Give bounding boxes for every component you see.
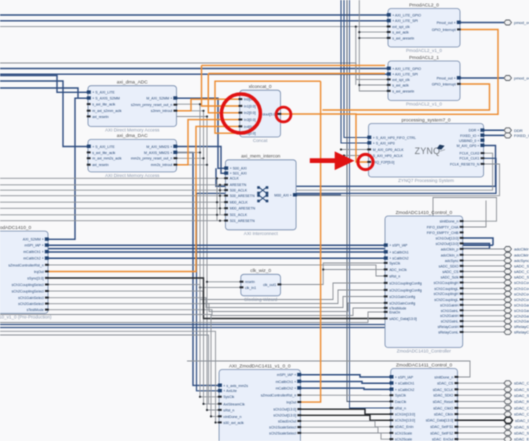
svg-text:sRst_n: sRst_n	[389, 274, 400, 278]
wire AXI_LITE_GPIO bus to PmodACL2_1	[0, 67, 388, 70]
wire sZmodControllerRst_n	[48, 265, 385, 276]
wire Pmod_out 1	[460, 77, 504, 80]
wire M_AXIS_MM2S to s_axis_mm2s	[177, 153, 220, 386]
svg-text:sCh2CouplingH: sCh2CouplingH	[514, 291, 529, 296]
svg-text:+ S_AXIS_S2MM: + S_AXIS_S2MM	[92, 97, 120, 101]
wire SysClk trunk to AXI_ZmodDAC	[200, 104, 219, 397]
port sDAC_SetFS2	[504, 431, 512, 436]
port adcSync	[504, 258, 512, 263]
svg-text:sADC_Sclk: sADC_Sclk	[441, 276, 459, 280]
svg-text:sDacEnOut: sDacEnOut	[278, 420, 296, 424]
svg-text:sDAC_SDIO: sDAC_SDIO	[433, 394, 453, 398]
block ZmodADC1410_0	[0, 225, 52, 320]
svg-text:M_AXI_GP0_ACLK: M_AXI_GP0_ACLK	[373, 148, 405, 152]
svg-text:DDR +: DDR +	[469, 129, 480, 133]
svg-text:sDAC_ClkIO: sDAC_ClkIO	[433, 406, 453, 410]
svg-text:sADC_CS: sADC_CS	[442, 270, 459, 274]
svg-text:m_axi_mm2s_aclk: m_axi_mm2s_aclk	[92, 157, 122, 161]
wire EnaOn feed	[0, 312, 385, 323]
svg-text:M00_ARESETN: M00_ARESETN	[230, 207, 256, 211]
wire AXI_S2MM from ZmodADC1410_0	[48, 98, 88, 239]
wire S_AXI_LITE to axi_dma_DAC	[0, 81, 88, 147]
wire sZmodControllerRst_n DAC	[300, 394, 390, 396]
svg-text:sADC_Sclk: sADC_Sclk	[514, 275, 529, 280]
svg-text:+ sCalibCh2: + sCalibCh2	[389, 257, 408, 261]
svg-text:s2mm_prmry_reset_out_n: s2mm_prmry_reset_out_n	[131, 103, 172, 107]
svg-text:mm2s_introut: mm2s_introut	[151, 163, 173, 167]
svg-text:In3[0:0]: In3[0:0]	[244, 118, 256, 122]
svg-text:+ s_axis_mm2s: + s_axis_mm2s	[223, 384, 248, 388]
block ZmodADC1410_Control_0	[384, 210, 464, 354]
svg-text:FIFO_EMPTY_CHB: FIFO_EMPTY_CHB	[427, 231, 459, 235]
wire mSPI_IAP to DAC ctl	[300, 375, 390, 377]
svg-text:sCh1GainConfig: sCh1GainConfig	[389, 295, 415, 299]
svg-text:adcSync: adcSync	[514, 258, 529, 263]
wire interconnect clk/reset feeder	[0, 201, 225, 203]
svg-text:ACLK: ACLK	[230, 177, 240, 181]
svg-text:ARESETN: ARESETN	[230, 183, 247, 187]
svg-text:ZYNQ7 Processing System: ZYNQ7 Processing System	[398, 178, 454, 183]
svg-text:sDAC_Reset: sDAC_Reset	[514, 399, 529, 404]
wire to sDAC external port	[458, 413, 505, 415]
svg-text:S00_ARESETN: S00_ARESETN	[230, 194, 255, 198]
port FIXED_IO	[504, 133, 512, 138]
svg-text:sSync[3:0]: sSync[3:0]	[27, 276, 44, 280]
svg-text:S01_ACLK: S01_ACLK	[230, 213, 248, 217]
svg-text:sCh2CouplingSelect: sCh2CouplingSelect	[12, 290, 44, 294]
svg-text:IrqOut: IrqOut	[34, 270, 44, 274]
svg-text:S01_ARESETN: S01_ARESETN	[230, 219, 255, 223]
wire S_AXI_HP0_ACLK	[344, 155, 369, 157]
svg-text:sDAC_SetFS2: sDAC_SetFS2	[514, 431, 529, 436]
svg-text:sDAC_SDIO: sDAC_SDIO	[514, 393, 529, 398]
block PmodACL2_0	[387, 2, 461, 53]
svg-text:sCh1CouplingH: sCh1CouplingH	[434, 281, 459, 285]
svg-text:DDR: DDR	[514, 128, 523, 133]
wire axi_resetn dma_DAC	[88, 164, 207, 166]
svg-text:sCh2Scale: sCh2Scale	[395, 438, 412, 441]
wire s_axi clock/reset trunk	[359, 0, 388, 91]
svg-text:sDAC_SetFS1: sDAC_SetFS1	[430, 425, 453, 429]
svg-text:sCh2CouplingL: sCh2CouplingL	[434, 298, 458, 302]
wire to external port	[463, 271, 504, 273]
annotation red circle around concat dout	[276, 107, 291, 122]
svg-text:IrqOut: IrqOut	[286, 401, 296, 405]
svg-text:m_axi_s2mm_aclk: m_axi_s2mm_aclk	[92, 109, 122, 113]
svg-text:sADC_CS: sADC_CS	[514, 269, 529, 274]
svg-text:ext_spi_clk: ext_spi_clk	[392, 25, 410, 29]
wire sCh1Out bus DAC	[300, 409, 390, 414]
port sCh2GainH	[504, 313, 512, 318]
svg-text:sRelayComH: sRelayComH	[514, 324, 529, 329]
port sDAC_SetFS1	[504, 424, 512, 429]
svg-text:sRelayComH: sRelayComH	[438, 325, 459, 329]
svg-text:sCh1CouplingL: sCh1CouplingL	[434, 287, 458, 291]
svg-text:M_AXI_MM2S +: M_AXI_MM2S +	[146, 145, 172, 149]
svg-text:SysClk: SysClk	[395, 394, 406, 398]
svg-text:pmod_out_1: pmod_out_1	[514, 76, 529, 81]
svg-text:sDAC_ClkIn: sDAC_ClkIn	[514, 412, 529, 417]
wire AXI_LITE_GPIO bus to PmodACL2_0	[0, 14, 388, 17]
svg-text:s_axi_lite_aclk: s_axi_lite_aclk	[92, 151, 115, 155]
svg-text:s_axi_aresetn: s_axi_aresetn	[392, 36, 414, 40]
svg-text:sCh1GainL: sCh1GainL	[514, 308, 529, 313]
wire to In1	[202, 65, 240, 106]
wire tap trunk a	[216, 178, 218, 220]
wire axi_resetn dma_ADC	[88, 116, 207, 118]
svg-text:sCh1GainH: sCh1GainH	[514, 303, 529, 308]
svg-text:AXI_ZmodDAC1411_v1_0_0: AXI_ZmodDAC1411_v1_0_0	[229, 363, 291, 369]
svg-text:sCh2Out[13:0]: sCh2Out[13:0]	[436, 242, 459, 246]
wire to sDAC external port	[458, 432, 505, 434]
svg-text:ZmodADC1410_Controller: ZmodADC1410_Controller	[397, 349, 452, 354]
svg-text:clk_in1: clk_in1	[245, 286, 256, 290]
wire interconnect clk/reset feeder	[0, 214, 225, 216]
svg-text:s_axi_aclk: s_axi_aclk	[392, 83, 409, 87]
svg-text:+ AXI_LITE_GPIO: + AXI_LITE_GPIO	[392, 13, 421, 17]
svg-text:FCLK_CLK1: FCLK_CLK1	[459, 157, 479, 161]
svg-text:AXI Direct Memory Access: AXI Direct Memory Access	[105, 173, 160, 178]
svg-text:GPIO_Interrupt: GPIO_Interrupt	[432, 28, 456, 32]
wire to external port	[463, 276, 504, 278]
wire to external port	[463, 320, 504, 322]
svg-text:sCh2CouplingConfig: sCh2CouplingConfig	[389, 288, 422, 292]
port sDAC_CS	[504, 381, 512, 386]
svg-text:sCh1CouplingSelect: sCh1CouplingSelect	[12, 283, 44, 287]
svg-text:mm2s_prmry_reset_out_n: mm2s_prmry_reset_out_n	[131, 157, 172, 161]
svg-text:EnaOn: EnaOn	[389, 310, 400, 314]
wire vertical trunk 2 to ZmodDAC ctl	[350, 0, 391, 408]
svg-text:sTestMode: sTestMode	[27, 308, 44, 312]
svg-text:sCh2GainSelect: sCh2GainSelect	[18, 302, 44, 306]
svg-text:sCh2ScaleSelect: sCh2ScaleSelect	[269, 431, 296, 435]
svg-text:Pmod_out +: Pmod_out +	[437, 21, 456, 25]
port sCh2CouplingL	[504, 297, 512, 302]
wire AxiStreamClk trunk	[204, 111, 220, 404]
wire interconnect clk/reset feeder	[0, 177, 225, 179]
wire interrupt net top 1	[202, 64, 386, 67]
svg-text:sCh1CouplingConfig: sCh1CouplingConfig	[389, 281, 422, 285]
svg-text:sDAC_EnOut: sDAC_EnOut	[514, 437, 529, 441]
wire FCLK_CLK1 loop / AxiLite trunk	[197, 158, 497, 390]
svg-text:SysClk: SysClk	[389, 261, 400, 265]
wire FCLK_CLK0 to S00_ACLK	[225, 153, 492, 190]
wire to external port	[463, 331, 504, 333]
wire to external port	[463, 282, 504, 284]
wire long net above bottom blocks	[187, 361, 470, 377]
port sCh1CouplingL	[504, 286, 512, 291]
svg-text:sDAC_CS: sDAC_CS	[437, 382, 454, 386]
wire long bus pair b	[0, 326, 385, 329]
svg-text:dout[5:0]: dout[5:0]	[262, 112, 276, 116]
svg-text:processing_system7_0: processing_system7_0	[402, 117, 451, 123]
svg-text:s_axi_aresetn: s_axi_aresetn	[392, 89, 414, 93]
wire mCalibCh2 to DAC ctl	[300, 388, 390, 389]
svg-text:sDAC_ClkIO: sDAC_ClkIO	[514, 406, 529, 411]
wire ext_spi_clk PmodACL2_0	[0, 26, 388, 28]
port sCh1GainL	[504, 308, 512, 313]
svg-text:sRst_n: sRst_n	[223, 408, 234, 412]
wire to external port	[463, 260, 504, 262]
wire clk_in1 to clk_wiz	[200, 286, 241, 288]
svg-text:AXI_S2MM +: AXI_S2MM +	[23, 238, 44, 242]
wire bottom feeder 2	[0, 335, 209, 404]
svg-text:DacClk: DacClk	[395, 400, 407, 404]
svg-text:Concat: Concat	[253, 138, 268, 143]
wire to external port	[463, 287, 504, 289]
svg-text:sRelayComL: sRelayComL	[514, 330, 529, 335]
svg-text:sDAC_CS: sDAC_CS	[514, 381, 529, 386]
svg-text:axi_dma_ADC: axi_dma_ADC	[117, 80, 148, 86]
svg-text:PmodACL2_v1_0: PmodACL2_v1_0	[406, 48, 442, 53]
svg-text:sDAC_SetFS2: sDAC_SetFS2	[430, 431, 453, 435]
svg-text:sCh2GainH: sCh2GainH	[514, 313, 529, 318]
wire mCalibCh1 to DAC ctl	[300, 382, 390, 384]
wire FIXED_IO	[484, 134, 504, 137]
svg-text:M_AXIS_MM2S +: M_AXIS_MM2S +	[144, 151, 172, 155]
wire M00_AXI	[296, 194, 341, 197]
svg-text:sRelayComL: sRelayComL	[438, 331, 458, 335]
wire resetn to clk_wiz	[207, 281, 241, 283]
wire interconnect clk/reset feeder	[0, 220, 225, 222]
svg-text:mCalibCh1 +: mCalibCh1 +	[23, 250, 44, 254]
wire to external port	[463, 293, 504, 295]
wire s_axi_aclk PmodACL2_0	[359, 31, 388, 33]
wire to sDAC external port	[458, 426, 505, 428]
wire aclk trunk 2	[355, 27, 357, 85]
svg-text:mSPI_IAP +: mSPI_IAP +	[24, 244, 43, 248]
wire to external port	[463, 304, 504, 306]
svg-text:+ sSPI_IAP: + sSPI_IAP	[395, 375, 414, 379]
wire sCh2Out loop	[463, 244, 490, 249]
svg-text:sCh2GainL: sCh2GainL	[441, 320, 459, 324]
block xlconcat_0	[239, 84, 282, 143]
wire to In5	[215, 81, 321, 133]
svg-text:+ AXI_LITE_GPIO: + AXI_LITE_GPIO	[392, 67, 421, 71]
port sADC_Sclk	[504, 275, 512, 280]
wire interconnect clk/reset feeder	[0, 184, 225, 186]
wire m_axi_s2mm_aclk	[88, 110, 204, 112]
port adcClkIn_p	[504, 247, 512, 252]
svg-text:S_AXI_HP0_ACLK: S_AXI_HP0_ACLK	[373, 154, 404, 158]
svg-text:sDAC_ClkIn: sDAC_ClkIn	[434, 413, 453, 417]
svg-text:xlconcat_0: xlconcat_0	[249, 84, 272, 90]
wire reset trunk	[207, 117, 219, 411]
svg-text:sCh1In[13:0]: sCh1In[13:0]	[395, 413, 415, 417]
svg-text:+ S_AXI_LITE: + S_AXI_LITE	[92, 91, 115, 95]
svg-text:AxiStreamClk: AxiStreamClk	[223, 402, 245, 406]
wire interconnect clk/reset feeder	[0, 189, 225, 191]
svg-text:In1[0:0]: In1[0:0]	[244, 104, 256, 108]
svg-text:sZmodControllerRst_n: sZmodControllerRst_n	[261, 394, 297, 398]
wire sDacEnOut	[300, 421, 390, 427]
svg-text:adcClkIn_p: adcClkIn_p	[441, 247, 459, 251]
svg-text:ext_spi_clk: ext_spi_clk	[392, 78, 410, 82]
wire ADC_InClk feed	[323, 269, 385, 271]
wire interconnect clk/reset feeder	[0, 207, 225, 209]
svg-text:resetn: resetn	[245, 280, 255, 284]
svg-text:clk_wiz_0: clk_wiz_0	[250, 268, 271, 274]
svg-text:AXI Interconnect: AXI Interconnect	[244, 231, 279, 236]
svg-text:s00_axi_aclk: s00_axi_aclk	[223, 421, 244, 425]
svg-text:ZmodADC1410_v1_0 (Pre-Producti: ZmodADC1410_v1_0 (Pre-Production)	[0, 315, 52, 320]
svg-text:USBIND_0 +: USBIND_0 +	[459, 139, 479, 143]
wire s_axi_aresetn PmodACL2_0	[359, 37, 388, 39]
svg-text:adcClkIn_n: adcClkIn_n	[441, 253, 459, 257]
svg-text:axi_dma_DAC: axi_dma_DAC	[117, 133, 148, 139]
svg-text:s2mm_introut: s2mm_introut	[151, 109, 173, 113]
svg-text:sCh2CouplingL: sCh2CouplingL	[514, 297, 529, 302]
port sDAC_SDIO	[504, 393, 512, 398]
wire M_AXI_GP0 loopback	[216, 146, 496, 187]
block AXI_ZmodDAC1411_v1_0_0	[218, 363, 301, 441]
wire s_axi_aclk PmodACL2_1	[359, 84, 388, 86]
wire interconnect clk/reset feeder	[0, 195, 225, 197]
svg-text:M00_AXI +: M00_AXI +	[274, 193, 292, 197]
svg-text:sCh2GainL: sCh2GainL	[514, 319, 529, 324]
wire mSPI_IAP bus	[48, 244, 493, 247]
svg-text:adcClkIn_n: adcClkIn_n	[514, 252, 529, 257]
port sDAC_ClkIO	[504, 406, 512, 411]
wire tap trunk b	[219, 185, 221, 215]
svg-text:sCh1GainSelect: sCh1GainSelect	[18, 296, 44, 300]
svg-text:sDAC_SCLK: sDAC_SCLK	[433, 388, 454, 392]
wire coupling/gain select	[48, 283, 385, 300]
block axi_dma_DAC	[87, 133, 178, 178]
port sDAC_Data	[504, 417, 513, 423]
wire to sDAC external port	[458, 382, 505, 384]
port sCh1GainH	[504, 303, 512, 308]
port sCh2CouplingH	[504, 291, 512, 296]
wire M_AXI_MM2S to S01_AXI	[177, 147, 226, 174]
wire s2mm_introut to In0	[177, 99, 240, 111]
wire coupling/gain select	[48, 303, 385, 312]
wire to sDAC external port	[458, 388, 505, 390]
wire GPIO_Interrupt 0	[356, 30, 498, 115]
svg-text:Pmod_out +: Pmod_out +	[437, 76, 456, 80]
svg-text:ZYNQ: ZYNQ	[415, 146, 441, 156]
annotation red circle around IRQ_F2P	[358, 154, 373, 169]
svg-text:SysClk: SysClk	[223, 395, 234, 399]
svg-text:+ sCalibCh1: + sCalibCh1	[395, 382, 414, 386]
wire coupling/gain select	[48, 308, 385, 316]
wire M_AXI_GP0_ACLK	[341, 149, 369, 151]
svg-text:S00_ACLK: S00_ACLK	[230, 189, 248, 193]
wire mCalibCh1 bus	[48, 247, 490, 250]
block ZmodDAC1411_Control_0	[390, 362, 459, 441]
wire sSync to sADC_Data bus	[48, 278, 385, 319]
wire coupling/gain select	[48, 297, 385, 308]
port DDR	[504, 128, 512, 133]
svg-text:+ AXI_LITE_SPI: + AXI_LITE_SPI	[392, 73, 418, 77]
svg-text:PmodACL2_1: PmodACL2_1	[409, 55, 439, 61]
svg-text:ADC_InClk: ADC_InClk	[389, 268, 407, 272]
port sRelayComL	[504, 330, 512, 335]
svg-text:xIntDone_n: xIntDone_n	[223, 415, 241, 419]
svg-text:In2[0:0]: In2[0:0]	[244, 111, 256, 115]
svg-text:sDAC_Reset: sDAC_Reset	[433, 400, 454, 404]
wire vertical trunk to ZmodDAC ctl	[347, 0, 391, 402]
svg-text:Clocking Wizard: Clocking Wizard	[244, 297, 278, 302]
wire sInitDone_n frame	[433, 198, 497, 222]
svg-text:+ S00_AXI: + S00_AXI	[230, 167, 247, 171]
svg-text:ZmodDAC1411_Control_0: ZmodDAC1411_Control_0	[396, 362, 453, 368]
wire interrupt net top 2	[208, 72, 385, 75]
wire bottom feeder 1	[0, 315, 219, 417]
svg-text:clk_out1: clk_out1	[263, 283, 276, 287]
svg-text:s_axi_lite_aclk: s_axi_lite_aclk	[92, 103, 115, 107]
svg-text:sCh2GainH: sCh2GainH	[440, 314, 459, 318]
wire dout to IRQ_F2P	[281, 114, 369, 162]
block clk_wiz_0	[240, 268, 282, 302]
wire Pmod_out 0	[460, 21, 504, 24]
wire FIFO_EMPTY_CHA	[463, 201, 486, 228]
wire to sDAC external port	[458, 394, 505, 396]
svg-text:sCh2In[13:0]: sCh2In[13:0]	[395, 419, 415, 423]
svg-text:axi_mem_intercon: axi_mem_intercon	[241, 154, 281, 160]
wire s_axi_lite_aclk dma_ADC	[88, 103, 200, 105]
port sADC_SDIO	[504, 264, 512, 269]
block axi_dma_ADC	[87, 80, 178, 133]
block axi_mem_intercon	[224, 154, 297, 236]
svg-text:M_AXI_S2MM +: M_AXI_S2MM +	[146, 97, 172, 101]
svg-text:+ S_AXI_LITE: + S_AXI_LITE	[92, 145, 115, 149]
wire ZmodADC IrqOut to In4	[48, 126, 240, 271]
port pmod_out_0	[504, 20, 512, 25]
svg-text:sCh1Scale: sCh1Scale	[395, 431, 412, 435]
svg-text:FIXED_IO +: FIXED_IO +	[460, 134, 479, 138]
svg-text:sDAC_EnIn: sDAC_EnIn	[395, 425, 414, 429]
svg-text:sCh1CouplingL: sCh1CouplingL	[514, 286, 529, 291]
svg-text:+ sCalibCh1: + sCalibCh1	[389, 250, 408, 254]
svg-text:sCh1Out[13:0]: sCh1Out[13:0]	[436, 236, 459, 240]
svg-text:sCh1CouplingH: sCh1CouplingH	[514, 280, 529, 285]
svg-text:pmod_out_0: pmod_out_0	[514, 20, 529, 25]
port sADC_CS	[504, 269, 512, 274]
svg-text:sDAC_EnOut: sDAC_EnOut	[432, 438, 453, 441]
svg-text:sCh2GainConfig: sCh2GainConfig	[389, 301, 415, 305]
wire mCalibCh2 bus	[48, 251, 385, 254]
wire S_AXI_LITE to axi_dma_ADC	[0, 76, 88, 93]
wire to external port	[463, 299, 504, 301]
svg-text:sADC_SDIO: sADC_SDIO	[514, 264, 529, 269]
wire to In2	[208, 74, 239, 113]
svg-text:+ S_AXI_HP0: + S_AXI_HP0	[373, 141, 395, 145]
wire IrqOut AXI_ZmodDAC vertical	[300, 81, 320, 402]
port sDAC_EnOut	[504, 437, 512, 441]
svg-text:sDAC_SetFS1: sDAC_SetFS1	[514, 424, 529, 429]
svg-text:sCh1GainL: sCh1GainL	[441, 309, 459, 313]
svg-text:mCalibCh1 +: mCalibCh1 +	[276, 380, 297, 384]
svg-text:+ sSPI_IAP: + sSPI_IAP	[389, 244, 408, 248]
port sDAC_SCLK	[504, 387, 512, 392]
svg-text:sADC_Data[13:0]: sADC_Data[13:0]	[389, 317, 417, 321]
wire to external port	[463, 309, 504, 311]
port sCh2GainL	[504, 319, 512, 324]
svg-text:sDAC_Data[13:0]: sDAC_Data[13:0]	[426, 419, 454, 423]
svg-text:sInitDone_n: sInitDone_n	[434, 375, 453, 379]
svg-text:mCalibCh2 +: mCalibCh2 +	[23, 257, 44, 261]
wire clk_out1 to SysClk	[281, 263, 386, 285]
svg-text:GPIO_Interrupt: GPIO_Interrupt	[432, 82, 456, 86]
wire calib bus 2	[48, 257, 385, 260]
wire M_AXI_S2MM to S00_AXI	[177, 98, 226, 168]
wire ext_spi_clk PmodACL2_1	[0, 63, 388, 80]
svg-text:+ sCalibCh2: + sCalibCh2	[395, 388, 414, 392]
port pmod_out_1	[504, 76, 512, 81]
svg-text:sDAC_Data: sDAC_Data	[515, 418, 529, 423]
svg-text:sADC_SDIO: sADC_SDIO	[439, 264, 459, 268]
